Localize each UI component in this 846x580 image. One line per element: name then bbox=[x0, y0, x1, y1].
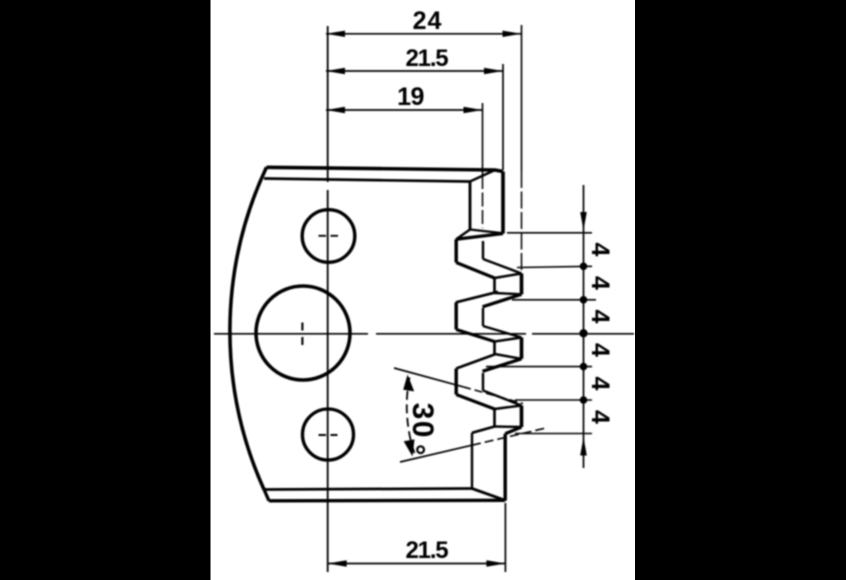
svg-text:24: 24 bbox=[413, 7, 443, 35]
30 degree angle upper leg dashed part bbox=[463, 387, 523, 404]
30 degree angle upper leg solid part bbox=[394, 368, 463, 387]
svg-text:4: 4 bbox=[586, 343, 614, 357]
svg-text:4: 4 bbox=[586, 376, 614, 390]
chain bottom arrow (points up to 433.5) bbox=[580, 437, 587, 456]
bottom dim left arrow bbox=[328, 560, 347, 566]
dim 21.5 top dimension line bbox=[326, 70, 503, 72]
dim 24 extension line right lower dashed bbox=[521, 171, 523, 272]
chain top arrow (points down to 232.8) bbox=[580, 212, 587, 231]
30 degree angle lower leg solid part bbox=[400, 445, 472, 462]
left black margin panel bbox=[0, 0, 211, 580]
svg-text:4: 4 bbox=[586, 243, 614, 257]
valley2 floor upper diagonal bbox=[483, 326, 522, 338]
valley2 front wall bbox=[454, 302, 457, 329]
bottom back edge bbox=[269, 499, 505, 503]
chain ext line y=299.5 bbox=[512, 299, 596, 301]
tooth1 bottom heavy diagonal bbox=[456, 234, 503, 240]
bottom front edge bbox=[264, 489, 472, 490]
lower right front vertical bbox=[471, 433, 473, 489]
tooth4 front tip vertical bbox=[493, 409, 496, 427]
svg-text:21.5: 21.5 bbox=[406, 45, 449, 72]
dim 19 extension line right upper (x=482.5) bbox=[482, 103, 484, 175]
tooth1 front-to-wall miter bbox=[456, 230, 470, 240]
tooth4 back tip face bbox=[520, 406, 524, 428]
dim 21.5 right arrow bbox=[484, 68, 503, 74]
top mounting hole circle bbox=[302, 210, 355, 263]
top front edge bbox=[264, 179, 470, 182]
valley3 floor outer diagonal bbox=[456, 395, 494, 410]
valley2 floor outer diagonal bbox=[456, 330, 494, 342]
dim 24 left arrow bbox=[326, 31, 345, 37]
tooth3 bottom upper diagonal bbox=[456, 355, 494, 369]
arrowheads for horizontal dimensions bbox=[326, 31, 522, 567]
chain dot y=333 bbox=[579, 329, 587, 337]
tooth2 tip bottom edge bbox=[495, 293, 522, 294]
tooth3 front tip vertical bbox=[493, 342, 496, 355]
valley1 floor upper diagonal bbox=[483, 259, 522, 274]
bottom circle center tick bbox=[319, 434, 338, 436]
svg-text:4: 4 bbox=[586, 310, 614, 324]
bottom dim 21.5 dimension line bbox=[328, 563, 506, 565]
valley2 back wall bbox=[482, 308, 484, 326]
bottom-right miter diagonal bbox=[472, 489, 505, 501]
chain dot y=299.5 bbox=[580, 296, 588, 304]
dim 19 dimension line bbox=[326, 109, 483, 111]
tooth2 bottom lower diagonal bbox=[483, 294, 522, 307]
chain ext line y=266 bbox=[517, 266, 592, 267]
tooth3 back tip face bbox=[520, 338, 524, 359]
chain dot y=366.5 bbox=[580, 363, 588, 371]
valley1 floor outer diagonal bbox=[456, 263, 494, 279]
svg-text:19: 19 bbox=[397, 83, 424, 111]
horizontal centerline bbox=[214, 333, 634, 335]
valley3 floor upper diagonal bbox=[483, 391, 522, 406]
chain ext line y=433.5 bbox=[515, 433, 592, 435]
tooth4 tip bottom edge bbox=[495, 425, 522, 428]
bottom dim right arrow bbox=[486, 560, 505, 566]
chain dimension vertical line bbox=[583, 185, 585, 468]
dim 19 right arrow bbox=[464, 107, 483, 113]
tooth4 bottom upper diagonal bbox=[472, 427, 495, 433]
knife body left arc edge bbox=[230, 167, 267, 489]
top back edge bbox=[267, 167, 504, 171]
tooth2 back tip face bbox=[520, 274, 524, 295]
chain ext line y=400 bbox=[515, 399, 592, 401]
chain ext line y=366.5 bbox=[486, 366, 592, 368]
dim 24 right arrow bbox=[503, 31, 522, 37]
top-right miter diagonal bbox=[470, 170, 495, 182]
tooth2 bottom upper diagonal bbox=[456, 292, 498, 303]
tooth4 tip top edge bbox=[495, 406, 522, 410]
svg-text:30: 30 bbox=[406, 403, 439, 439]
top circle center tick bbox=[319, 235, 339, 237]
angle arc top arrowhead bbox=[403, 375, 414, 392]
dim 19 left arrow bbox=[326, 107, 345, 113]
tooth2 tip top edge bbox=[495, 274, 522, 279]
angle arc bottom arrowhead bbox=[404, 439, 415, 456]
lower right back vertical bbox=[503, 434, 506, 501]
right side chain dimension bbox=[486, 185, 596, 468]
chain ext line y=232.5 bbox=[507, 232, 592, 234]
dim 21.5 left arrow bbox=[326, 68, 345, 74]
valley3 back wall bbox=[482, 373, 484, 391]
svg-text:4: 4 bbox=[586, 410, 614, 424]
30 degree angle arc bbox=[407, 378, 415, 454]
30 degree angle lower leg dashed part bbox=[472, 428, 545, 445]
tooth3 tip top edge bbox=[495, 338, 522, 342]
bottom right extension line bbox=[504, 503, 506, 572]
tooth2 front tip vertical bbox=[493, 278, 496, 293]
valley3 front wall bbox=[454, 369, 457, 395]
tooth1 bottom front diagonal bbox=[470, 230, 503, 234]
tooth1 front edge vertical bbox=[469, 182, 472, 230]
vertical centerline / left extension line bbox=[327, 26, 329, 572]
dim 24 extension line right upper (x=521.5) bbox=[521, 25, 523, 171]
dim 21.5 extension line right (x=503) bbox=[502, 64, 504, 170]
valley1 front wall bbox=[454, 239, 457, 262]
tooth1 back face vertical bbox=[501, 172, 505, 234]
valley1 back wall bbox=[482, 241, 484, 259]
chain dot y=266 bbox=[580, 263, 588, 271]
svg-text:4: 4 bbox=[586, 276, 614, 290]
tooth3 tip bottom edge bbox=[495, 354, 522, 359]
center bore circle bbox=[256, 286, 350, 380]
dim 24 dimension line bbox=[326, 33, 522, 35]
angle degree circle bbox=[417, 446, 424, 453]
chain dot y=400 bbox=[580, 396, 588, 404]
right black margin panel bbox=[635, 0, 846, 580]
tooth3 bottom lower diagonal bbox=[483, 359, 522, 372]
svg-text:21.5: 21.5 bbox=[406, 537, 449, 564]
dim 19 extension line right lower dashed bbox=[482, 175, 484, 228]
big circle center mark vertical dashes bbox=[301, 323, 303, 346]
bottom mounting hole circle bbox=[303, 409, 354, 460]
tooth4 bottom lower diagonal bbox=[505, 427, 521, 434]
bottom-left corner join bbox=[264, 490, 269, 501]
